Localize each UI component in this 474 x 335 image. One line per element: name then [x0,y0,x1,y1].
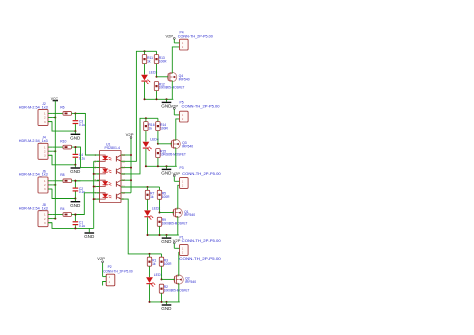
svg-text:10K0805-MOSFET: 10K0805-MOSFET [160,153,186,157]
svg-text:10K0805-MOSFET: 10K0805-MOSFET [159,86,185,90]
svg-text:100R: 100R [160,126,168,130]
svg-text:10K0805-MOSFET: 10K0805-MOSFET [162,221,188,225]
svg-text:R6: R6 [60,106,64,110]
svg-text:0.1u: 0.1u [79,224,85,228]
svg-text:V2P: V2P [173,172,181,176]
svg-text:CONN-TH_2P-P5.00: CONN-TH_2P-P5.00 [103,270,133,274]
svg-text:V2P: V2P [126,133,134,137]
svg-text:R8: R8 [60,173,64,177]
svg-text:GND: GND [70,203,80,208]
svg-text:CONN-TH_2P-P5.00: CONN-TH_2P-P5.00 [178,35,213,39]
svg-text:GND: GND [161,306,171,311]
svg-text:HDR-M-2.54_1x3: HDR-M-2.54_1x3 [19,105,48,109]
svg-text:CONN-TH_2P-P5.00: CONN-TH_2P-P5.00 [182,172,221,176]
svg-text:0.1u: 0.1u [79,123,85,127]
svg-text:IRF540: IRF540 [182,145,193,149]
svg-text:R10: R10 [60,139,66,143]
svg-text:PS2801-4: PS2801-4 [105,146,121,150]
svg-text:CONN-TH_2P-P5.00: CONN-TH_2P-P5.00 [179,257,221,261]
svg-text:GND: GND [161,239,171,244]
svg-text:V2P: V2P [173,239,181,243]
svg-text:IRF540: IRF540 [185,280,196,284]
svg-text:HDR-M-2.54_1x3: HDR-M-2.54_1x3 [19,139,48,143]
svg-text:V2P: V2P [171,105,179,109]
svg-text:1k: 1k [147,59,151,63]
svg-text:CONN-TH_2P-P5.00: CONN-TH_2P-P5.00 [182,105,220,109]
svg-text:IRF540: IRF540 [179,78,190,82]
svg-text:GND: GND [84,234,94,239]
svg-text:IRF540: IRF540 [184,213,195,217]
svg-text:V2P: V2P [166,35,174,39]
svg-text:100R: 100R [162,195,170,199]
svg-text:P2: P2 [108,265,112,269]
svg-text:P3: P3 [180,166,184,170]
svg-text:CONN-TH_2P-P5.00: CONN-TH_2P-P5.00 [182,239,221,243]
svg-text:HDR-M-2.54_1x3: HDR-M-2.54_1x3 [19,173,48,177]
svg-text:GND: GND [161,171,171,176]
svg-text:100R: 100R [159,59,167,63]
svg-text:HDR-M-2.54_1x3: HDR-M-2.54_1x3 [19,206,48,210]
svg-text:100R: 100R [164,262,172,266]
svg-text:1k: 1k [152,262,156,266]
svg-text:10K0805-MOSFET: 10K0805-MOSFET [164,288,190,292]
svg-text:V2P: V2P [97,257,105,261]
svg-text:1k: 1k [150,195,154,199]
svg-text:1k: 1k [149,126,153,130]
svg-text:0.1u: 0.1u [79,157,85,161]
svg-text:GND: GND [70,169,80,174]
svg-text:GND: GND [70,135,80,140]
svg-text:R4: R4 [60,207,64,211]
